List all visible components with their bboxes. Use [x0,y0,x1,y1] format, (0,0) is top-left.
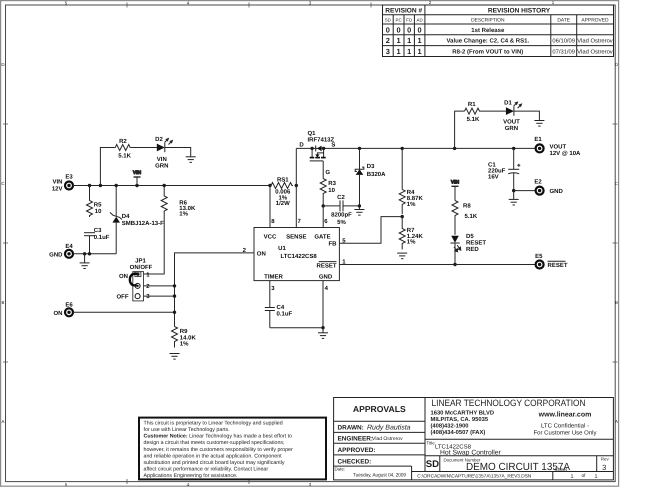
wire GATE pin6 [322,206,324,228]
power flag VIN left [133,170,142,185]
svg-text:8200pF: 8200pF [331,212,352,219]
svg-text:REVISION #: REVISION # [385,7,422,14]
wire R3 to C2 [323,205,340,207]
svg-text:3: 3 [386,47,390,56]
svg-text:B320A: B320A [367,171,386,178]
svg-text:RS1: RS1 [277,176,289,183]
svg-text:R1: R1 [468,101,476,108]
svg-text:CHECKED:: CHECKED: [338,458,372,465]
svg-text:C:\ORCADWIN\CAPTURE\1357A\1357: C:\ORCADWIN\CAPTURE\1357A\1357A_REV3.DSN [417,474,532,480]
svg-text:C2: C2 [337,194,345,201]
svg-text:substitution and printed circu: substitution and printed circuit board l… [144,460,285,466]
svg-text:Rev: Rev [601,457,610,462]
svg-text:however, it remains the custom: however, it remains the customers respon… [144,447,293,453]
wire R2 branch [100,148,114,186]
wire R2 to D2 [131,147,157,149]
svg-text:1%: 1% [180,340,189,347]
svg-text:ENGINEER:: ENGINEER: [338,435,374,442]
resistor R2 5.1K [115,138,132,159]
terminal E3 [52,174,74,193]
terminal E5 [535,253,568,269]
terminal E2 [534,179,563,195]
pin 7 [298,218,302,225]
node D4 tap [115,184,118,187]
svg-text:D1: D1 [504,99,512,106]
svg-text:Vlad Ostrerov: Vlad Ostrerov [372,436,403,442]
svg-text:www.linear.com: www.linear.com [538,411,592,419]
svg-text:VIN: VIN [157,156,167,163]
svg-text:VIN: VIN [451,180,460,186]
svg-text:SD: SD [426,459,439,470]
node JP1 pin3 junction [173,294,176,297]
wire TIMER pin3 [269,281,271,308]
node VIN flag tap [135,184,138,187]
svg-text:R9: R9 [180,328,188,335]
svg-text:Rudy Bautista: Rudy Bautista [367,423,411,431]
ground after D2 [186,157,196,163]
wire GND pin4 [322,281,324,328]
node D5 reset junction [453,263,456,266]
ground after D1 [534,121,544,127]
node D3 rail tap [358,147,361,150]
svg-text:U1: U1 [278,245,286,252]
svg-text:RED: RED [466,246,479,253]
svg-text:GRN: GRN [155,163,168,170]
node E6 junction [173,311,176,314]
node GND junction [321,326,324,329]
svg-text:VIN: VIN [133,170,142,176]
svg-text:5%: 5% [337,219,346,226]
svg-text:1: 1 [571,474,574,480]
svg-text:LTC Confidential -: LTC Confidential - [541,422,589,429]
resistor RS1 0.006 [270,176,293,207]
svg-text:VOUT: VOUT [503,118,520,125]
svg-text:GND: GND [550,188,564,195]
pin 4 [325,285,329,292]
wire SENSE drain column [295,148,297,227]
svg-text:JP1: JP1 [135,258,146,265]
pin 2 [243,247,247,254]
svg-text:B: B [615,300,618,305]
svg-text:E3: E3 [65,174,73,181]
svg-text:C: C [615,181,618,186]
svg-text:FD: FD [406,17,412,22]
svg-text:C4: C4 [277,304,285,311]
svg-text:Value Change: C2, C4 & RS1.: Value Change: C2, C4 & RS1. [446,38,529,45]
svg-text:5.1K: 5.1K [467,116,480,123]
svg-text:GATE: GATE [314,233,330,240]
svg-text:GRN: GRN [505,125,518,132]
wire VIN rail [73,185,270,187]
LED D5 RESET RED [450,233,486,265]
ground below R9 [170,354,180,360]
svg-text:A: A [615,419,618,424]
svg-text:C1: C1 [488,161,496,168]
power flag VIN right [451,180,460,201]
svg-text:Hot Swap Controller: Hot Swap Controller [440,450,502,457]
svg-text:Vlad Ostrerov: Vlad Ostrerov [577,38,613,45]
resistor R1 5.1K [465,101,481,123]
ground below U1 [318,328,328,339]
svg-text:APPROVALS: APPROVALS [353,404,406,414]
svg-text:APPROVED: APPROVED [581,18,609,24]
svg-text:Vlad Ostrerov: Vlad Ostrerov [577,49,613,56]
resistor R4 8.87K [399,148,423,214]
svg-text:ON: ON [54,310,63,317]
wire JP1 pin3 [144,295,175,297]
svg-text:VOUT: VOUT [550,144,567,151]
jumper JP1 ON/OFF [117,258,153,301]
resistor R7 1.24K [399,217,423,250]
svg-text:Customer Notice: Linear Techno: Customer Notice: Linear Technology has m… [144,434,293,440]
svg-text:0.1uF: 0.1uF [277,311,293,318]
svg-text:A: A [2,419,5,424]
svg-text:G: G [325,169,330,176]
svg-text:06/10/09: 06/10/09 [552,38,575,45]
svg-text:1: 1 [418,36,422,45]
svg-text:10: 10 [328,187,335,194]
svg-text:TIMER: TIMER [264,273,283,280]
op-amp U1 LTC1422CS8 box [254,228,339,281]
svg-text:D: D [299,142,304,149]
capacitor C3 0.1uF [84,227,110,254]
svg-text:VIN: VIN [52,179,62,186]
capacitor C1 220uF 16V [488,148,520,190]
wire gate [322,161,324,179]
svg-text:0.1uF: 0.1uF [94,234,110,241]
node C2 D3 ground junction [358,204,361,207]
svg-text:D4: D4 [122,213,130,220]
resistor R6 13.0K [161,186,196,218]
transistor Q1 IRF7413Z [299,130,335,176]
svg-text:D5: D5 [466,233,474,240]
node R6 tap [163,184,166,187]
svg-text:0: 0 [397,25,401,34]
svg-text:1: 1 [407,36,411,45]
svg-text:5.1K: 5.1K [118,153,131,160]
node RS1 right / SENSE [295,184,298,187]
svg-text:MILPITAS, CA. 95035: MILPITAS, CA. 95035 [431,416,489,423]
svg-text:1: 1 [397,47,401,56]
pin 5 [342,238,346,245]
svg-text:1: 1 [397,36,401,45]
svg-text:OFF: OFF [117,293,129,300]
pin 1 [342,259,346,266]
svg-text:VCC: VCC [264,233,277,240]
node R2 tap [99,184,102,187]
svg-text:for use with Linear Technology: for use with Linear Technology parts. [144,427,230,433]
svg-text:1st Release: 1st Release [471,27,505,34]
wire R1 to D1 [480,110,506,112]
svg-text:DESCRIPTION: DESCRIPTION [471,18,505,24]
svg-text:GND: GND [319,273,333,280]
svg-text:ON: ON [119,273,128,280]
svg-text:SD: SD [385,17,391,22]
svg-text:0.006: 0.006 [275,188,291,195]
svg-text:R2: R2 [119,138,127,145]
svg-text:design a circuit that meets cu: design a circuit that meets customer-sup… [144,440,285,446]
svg-text:3: 3 [602,463,606,472]
node JP1 pin2 junction [173,284,176,287]
svg-text:APPROVED:: APPROVED: [338,447,376,454]
capacitor C4 0.1uF [265,304,293,328]
svg-text:Title: Title [427,441,436,446]
terminal E1 [534,136,581,157]
node R1 rail tap [453,147,456,150]
svg-text:FB: FB [329,241,338,248]
svg-text:Applications Engineering for a: Applications Engineering for assistance. [144,473,238,479]
svg-text:SENSE: SENSE [286,233,306,240]
wire RESET net [339,264,535,266]
svg-text:affect circuit performance or: affect circuit performance or reliabilit… [144,467,269,473]
svg-text:DRAWN:: DRAWN: [338,424,364,431]
node R4 R7 FB junction [401,215,404,218]
svg-text:GND: GND [49,251,63,258]
svg-text:SMBJ12A-13-F: SMBJ12A-13-F [122,220,164,227]
svg-text:ON/OFF: ON/OFF [130,264,153,271]
svg-text:D: D [1,62,4,67]
node R5 tap [88,184,91,187]
svg-text:of: of [582,473,587,479]
svg-text:DATE: DATE [557,18,570,24]
svg-text:This circuit is proprietary to: This circuit is proprietary to Linear Te… [144,420,283,426]
svg-text:ON: ON [257,250,266,257]
wire D2 to ground [165,148,191,157]
svg-text:C3: C3 [94,227,102,234]
wire E6 line [73,311,175,313]
pin 8 [271,218,275,225]
svg-text:Sheet: Sheet [555,467,568,473]
wire ON net vertical [175,253,255,327]
title block [334,398,614,480]
svg-text:16V: 16V [488,173,499,180]
LED D2 VIN GRN [155,136,172,170]
svg-text:12V: 12V [52,185,63,192]
svg-text:1%: 1% [179,210,188,217]
svg-text:1/2W: 1/2W [276,200,290,207]
pin 3 [271,285,275,292]
svg-text:5.1K: 5.1K [465,213,478,220]
svg-text:(408)432-1900: (408)432-1900 [431,423,469,430]
svg-text:1: 1 [595,474,598,480]
svg-text:1: 1 [418,47,422,56]
svg-text:12V @ 10A: 12V @ 10A [550,150,582,157]
revision history table [383,5,614,57]
node RS1 left / VCC [268,184,271,187]
svg-text:C: C [1,181,4,186]
svg-text:and reliable operation in the: and reliable operation in the actual app… [144,453,283,459]
wire E4 ground line [73,253,116,255]
resistor R8 5.1K [452,201,478,235]
svg-text:10: 10 [95,208,102,215]
ground below R7 [397,253,407,259]
ground at E4 [80,254,90,269]
node R3 C2 junction [322,204,325,207]
svg-text:E4: E4 [65,243,73,250]
ground at C2/D3 [354,206,364,215]
svg-text:PC: PC [396,17,402,22]
svg-text:E1: E1 [534,136,542,143]
wire FB net [339,217,402,244]
svg-text:D: D [615,62,618,67]
pin 6 [324,218,328,225]
terminal E6 [54,301,74,317]
node C1 bottom junction [512,189,515,192]
diode D3 B320A (Schottky) [355,148,386,206]
svg-text:RESET: RESET [466,239,486,246]
svg-text:D2: D2 [155,136,163,143]
resistor R5 10 [87,186,103,218]
svg-text:220uF: 220uF [488,167,506,174]
svg-text:S: S [331,142,335,149]
wire C4 to GND pin [270,327,323,329]
svg-text:1630 McCARTHY BLVD: 1630 McCARTHY BLVD [431,410,495,417]
svg-text:For Customer Use Only: For Customer Use Only [533,429,596,436]
svg-text:RESET: RESET [548,262,568,269]
wire JP1 pin2 [144,285,175,287]
wire C1 to E2 [514,190,536,192]
svg-text:AD: AD [417,17,423,22]
resistor R9 14.0K [172,327,197,348]
node C3 bottom [88,252,91,255]
node E4 gnd stem [83,252,86,255]
svg-text:R3: R3 [328,180,336,187]
node R4 rail tap [401,147,404,150]
svg-text:REVISION HISTORY: REVISION HISTORY [488,7,551,14]
svg-text:(408)434-0507 (FAX): (408)434-0507 (FAX) [431,429,486,436]
node C1 rail tap [512,147,515,150]
svg-text:0: 0 [407,25,411,34]
svg-text:E6: E6 [65,301,73,308]
wire top rail [296,147,535,149]
svg-text:Tuesday, August 04, 2009: Tuesday, August 04, 2009 [353,473,406,479]
wire D1 to ground [514,111,540,120]
svg-text:R8: R8 [463,202,471,209]
svg-text:E2: E2 [534,179,542,186]
wire R6 to JP1 pin1 [144,212,165,274]
wire R1 branch [455,111,465,148]
svg-text:LTC1422CS8: LTC1422CS8 [280,253,317,260]
svg-text:1: 1 [407,47,411,56]
svg-text:07/31/09: 07/31/09 [552,49,575,56]
svg-text:RESET: RESET [316,263,336,270]
terminal E4 [49,243,73,259]
svg-text:1%: 1% [407,239,416,246]
disclaimer note box [139,418,326,480]
svg-text:B: B [2,300,5,305]
svg-text:R8-2 (From VOUT to VIN): R8-2 (From VOUT to VIN) [452,49,523,56]
diode D4 SMBJ12A-13-F (TVS) [110,186,164,254]
capacitor C2 8200pF [331,194,359,226]
svg-text:D3: D3 [367,163,375,170]
svg-text:LINEAR TECHNOLOGY CORPORATION: LINEAR TECHNOLOGY CORPORATION [432,398,586,408]
ground below C1 [509,191,519,205]
resistor R3 10 [320,179,336,205]
wire VCC pin8 [269,186,271,228]
svg-text:0: 0 [386,25,390,34]
svg-text:E5: E5 [535,253,543,260]
svg-text:Date:: Date: [335,467,346,472]
svg-text:Q1: Q1 [308,130,317,137]
svg-text:0: 0 [418,25,422,34]
svg-text:R5: R5 [94,202,102,209]
LED D1 VOUT GRN [503,99,521,132]
svg-text:2: 2 [386,36,390,45]
svg-text:14.0K: 14.0K [180,334,197,341]
svg-text:1%: 1% [407,201,416,208]
